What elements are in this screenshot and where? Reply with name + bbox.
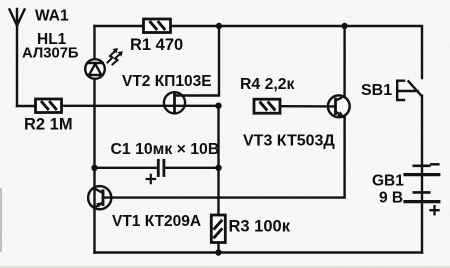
C1 right wire to junction — [165, 167, 218, 169]
resistor R3 — [211, 215, 225, 243]
scan artifact: left edge streak — [0, 188, 2, 252]
svg-text:R4 2,2к: R4 2,2к — [240, 76, 295, 93]
VT3 emitter with arrow — [336, 112, 345, 118]
VT2 channel bar — [173, 94, 176, 112]
C1 left wire from junction — [95, 167, 157, 169]
resistor R1 — [144, 19, 171, 33]
VT3 emitter wire down and left to VT1 base — [103, 118, 345, 198]
node: C1 right / R3 column — [215, 165, 221, 171]
VT1 base bar — [102, 191, 105, 205]
wire bottom rail — [95, 251, 423, 253]
wire: source junction down to C1 junction, R3, bottom rail — [217, 106, 219, 215]
SB1 lower terminal wire to battery — [421, 96, 423, 253]
VT3 base bar — [334, 99, 337, 114]
wire mid rail: antenna to R2 — [17, 105, 36, 107]
node: R3 bottom / bottom rail — [215, 249, 221, 255]
node: VT2 source / R4 / R3 — [215, 103, 221, 109]
wire mid rail: R2 to FET gate through circle to junction — [62, 105, 219, 107]
node: top rail / VT3 collector — [341, 23, 347, 29]
svg-text:GB1: GB1 — [372, 173, 404, 190]
svg-text:SB1: SB1 — [361, 82, 392, 99]
svg-text:С1 10мк × 10В: С1 10мк × 10В — [111, 141, 220, 158]
scan artifact: bottom edge streak — [0, 266, 450, 268]
wire: R4 to VT3 base — [280, 105, 335, 108]
antenna WA1 — [10, 9, 25, 106]
wire: top-left corner down through LED column to VT1 and bottom rail — [93, 26, 95, 59]
svg-text:VT3 КТ503Д: VT3 КТ503Д — [243, 132, 335, 149]
VT3 collector — [336, 26, 345, 101]
VT2 drain lead to top rail — [175, 26, 220, 96]
svg-text:АЛ307Б: АЛ307Б — [22, 46, 79, 62]
GB1 cell plates — [414, 165, 430, 168]
svg-text:VT2 КП103Е: VT2 КП103Е — [122, 73, 212, 90]
scan noise overlay — [0, 0, 1, 1]
node: top rail / VT2 drain — [216, 23, 222, 29]
transistor VT1 (PNP) — [88, 186, 111, 209]
svg-text:R1 470: R1 470 — [130, 36, 183, 54]
transistor VT3 (NPN) — [103, 26, 350, 198]
GB1 minus sign — [431, 163, 438, 166]
LED HL1 — [85, 59, 105, 79]
transistor VT2 (p-channel JFET) — [164, 26, 219, 113]
svg-text:R3 100к: R3 100к — [229, 218, 291, 236]
LED emission arrows — [108, 48, 123, 65]
svg-text:R2 1М: R2 1М — [24, 116, 73, 134]
svg-text:WA1: WA1 — [35, 8, 69, 25]
switch SB1 — [397, 81, 422, 253]
VT1 collector diagonal — [95, 189, 104, 194]
resistor R2 — [36, 99, 62, 113]
SB1 movable contact — [409, 81, 422, 95]
node: LED column / C1 left — [91, 165, 97, 171]
wire top rail — [95, 26, 423, 78]
svg-text:9 В: 9 В — [379, 190, 403, 207]
C1 plates — [157, 160, 160, 175]
SB1 actuator plate — [397, 81, 404, 100]
SB1 actuator stem — [398, 90, 418, 92]
C1 polarity plus — [147, 175, 155, 183]
svg-text:VT1 КТ209А: VT1 КТ209А — [112, 213, 201, 230]
GB1 plus sign — [431, 206, 439, 214]
capacitor C1 — [95, 160, 219, 183]
resistor R4 — [254, 99, 280, 113]
battery GB1 — [405, 164, 439, 214]
VT1 emitter diagonal with arrow toward base — [95, 203, 104, 208]
